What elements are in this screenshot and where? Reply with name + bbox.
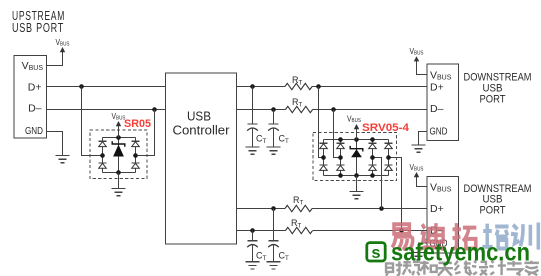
node SRV05-4 top rail center — [354, 137, 359, 142]
diode SRV05-4 col4 upper — [385, 142, 393, 144]
svg-text:D+: D+ — [430, 82, 444, 94]
wire W1 resistor RT1 to downstream port D+ — [312, 86, 427, 88]
capacitor CT1 — [248, 123, 258, 125]
wire D+ upstream from J1 to USB controller — [47, 86, 166, 88]
watermark CJK char yi — [392, 224, 413, 249]
node SR05 bottom rail center — [116, 170, 121, 175]
capacitor CT2 — [269, 123, 279, 125]
node SR05 right mid — [133, 153, 138, 158]
diode SRV05-4 col2 upper — [337, 142, 345, 144]
svg-text:PORT: PORT — [480, 205, 506, 217]
node W4 capacitor tap — [250, 228, 255, 233]
wire capacitor CT3 feed from W4 — [252, 231, 254, 241]
node W2 capacitor tap — [271, 107, 276, 112]
wire capacitor CT4 feed from W3 crossing W4 — [273, 209, 275, 241]
SR05 top rail wire — [103, 137, 136, 139]
wire W3 controller D+ out lower to resistor RT3 — [237, 208, 286, 210]
wire VBUS pin J3 to arrow — [417, 177, 428, 187]
TVS diode array SR05 dashed outline — [90, 130, 147, 179]
ground symbol SRV05-4 — [350, 191, 364, 193]
node SRV05-4 col2 mid — [338, 155, 343, 160]
wire SRV05-4 pin3 lead to W3 node — [373, 158, 382, 209]
svg-text:CT: CT — [256, 134, 267, 146]
SRV05-4 bottom rail wire — [324, 175, 389, 177]
node W4 from SRV05-4 — [399, 228, 404, 233]
svg-text:D–: D– — [28, 103, 42, 115]
ground symbol J2 — [412, 144, 426, 146]
SRV05-4 column 4 wire — [388, 140, 390, 176]
node W3 capacitor tap — [271, 206, 276, 211]
node W1 to SRV05-4 — [316, 84, 321, 89]
svg-text:D+: D+ — [430, 203, 444, 215]
ground symbol CT4 — [267, 261, 281, 263]
svg-text:VBUS: VBUS — [430, 182, 452, 194]
diode SR05 upper-left — [99, 140, 107, 142]
node SRV05-4 col4 mid — [386, 155, 391, 160]
wire GND pin J3 to ground — [419, 243, 428, 253]
svg-text:RT: RT — [293, 195, 304, 207]
power flag VBUS downstream upper — [414, 56, 419, 61]
watermark CJK char di — [419, 223, 445, 249]
ground symbol upstream port — [56, 155, 70, 157]
wire SRV05-4 pin1 lead from W1 node down — [319, 87, 324, 158]
SR05 bottom rail wire — [103, 172, 136, 174]
wire CT4 to ground — [273, 244, 275, 262]
diode SR05 upper-right — [132, 140, 140, 142]
watermark CJK char pei — [482, 224, 508, 249]
svg-text:CT: CT — [256, 251, 267, 263]
resistor RT3 — [285, 205, 312, 211]
svg-text:VBUS: VBUS — [22, 60, 44, 72]
capacitor CT4 — [269, 240, 279, 242]
zener TVS diode SR05 center — [112, 141, 125, 147]
node SRV05-4 bottom rail col2 — [338, 173, 343, 178]
svg-text:USB: USB — [187, 110, 211, 124]
wire W2 controller D- out to resistor RT2 — [237, 109, 286, 111]
svg-text:Controller: Controller — [173, 124, 230, 138]
svg-text:VBUS: VBUS — [347, 114, 361, 124]
wire VBUS pin J2 to arrow — [417, 61, 428, 75]
wire SR05 left lead from D+ node down into array — [82, 87, 103, 156]
wire CT2 to ground — [273, 128, 275, 147]
diode SRV05-4 col4 lower — [385, 164, 393, 166]
svg-text:GND: GND — [25, 126, 43, 137]
ground symbol J3 — [412, 252, 426, 254]
wire SR05 right lead from D- node down into array — [136, 110, 155, 156]
power flag VBUS downstream lower — [414, 172, 419, 177]
wire SRV05-4 ground stem — [356, 176, 358, 192]
svg-text:SRV05-4: SRV05-4 — [362, 122, 410, 134]
svg-text:VBUS: VBUS — [410, 163, 424, 173]
SRV05-4 top rail wire — [324, 139, 389, 141]
wire W4 controller D- out lower to resistor RT4 — [237, 230, 286, 232]
watermark CJK char xun — [511, 223, 538, 250]
SRV05-4 column 2 wire — [340, 140, 342, 176]
power flag VBUS of SR05 — [116, 121, 121, 126]
svg-text:USB PORT: USB PORT — [12, 21, 64, 35]
diode SRV05-4 col2 lower — [337, 164, 345, 166]
svg-text:SR05: SR05 — [124, 118, 151, 130]
node SRV05-4 top rail col2 — [338, 137, 343, 142]
ground symbol CT3 — [246, 261, 260, 263]
node SRV05-4 col1 mid — [321, 155, 326, 160]
diode SRV05-4 col1 upper — [320, 142, 328, 144]
watermark CJK char tuo — [453, 223, 477, 249]
diode SRV05-4 col3 lower — [369, 164, 377, 166]
diode SRV05-4 col3 upper — [369, 142, 377, 144]
wire SR05 ground stem — [118, 173, 120, 189]
diode SRV05-4 col1 lower — [320, 164, 328, 166]
svg-text:RT: RT — [292, 75, 303, 87]
SRV05-4 column 3 wire — [372, 140, 374, 176]
wire D- upstream from J1 to USB controller — [47, 109, 166, 111]
wire SR05 VBUS stem — [118, 126, 120, 138]
node W1 capacitor tap — [250, 84, 255, 89]
connector J3 downstream USB port lower box — [427, 176, 459, 253]
svg-text:safetyemc.cn: safetyemc.cn — [391, 238, 530, 266]
node D+ junction to SR05 — [79, 84, 84, 89]
svg-text:VBUS: VBUS — [56, 38, 70, 48]
resistor RT4 — [286, 227, 313, 233]
SR05 left column wire — [102, 138, 104, 173]
node SRV05-4 bottom rail center — [354, 173, 359, 178]
TVS diode array SRV05-4 dashed outline — [313, 132, 397, 180]
node SRV05-4 col3 mid — [370, 155, 375, 160]
svg-text:s: s — [371, 244, 380, 262]
SRV05-4 column 1 wire — [323, 140, 325, 176]
ground symbol SR05 — [112, 188, 126, 190]
svg-text:D–: D– — [430, 103, 444, 115]
wire W4 resistor RT4 to downstream port D- lower — [313, 230, 427, 232]
wire SRV05-4 pin2 lead from W2 node down — [334, 110, 341, 158]
wire SRV05-4 VBUS stem — [356, 129, 358, 140]
wire W3 resistor RT3 to downstream port D+ lower — [312, 208, 427, 210]
wire capacitor CT2 feed from W2 — [273, 110, 275, 125]
svg-text:D+: D+ — [28, 82, 42, 94]
wire CT3 to ground — [252, 244, 254, 262]
node D- junction to SR05 — [152, 107, 157, 112]
wire capacitor CT1 feed from W1 — [252, 87, 254, 125]
diode SR05 lower-right — [132, 162, 140, 164]
SRV05-4 center column wire — [356, 140, 358, 176]
wire CT1 to ground — [252, 128, 254, 147]
ground symbol CT1 — [246, 146, 260, 148]
wire W1 controller D+ out to resistor RT1 — [237, 86, 286, 88]
svg-text:RT: RT — [291, 218, 302, 230]
wire W2 resistor RT2 to downstream port D- — [313, 109, 428, 111]
node SR05 left mid — [100, 153, 105, 158]
capacitor CT3 — [248, 240, 258, 242]
resistor RT1 — [285, 83, 312, 89]
svg-text:PORT: PORT — [480, 94, 506, 106]
power flag VBUS upstream arrow — [60, 47, 65, 52]
node W2 to SRV05-4 — [331, 107, 336, 112]
connector J1 upstream USB port box — [14, 56, 47, 139]
node SR05 top rail center — [116, 135, 121, 140]
ground symbol CT2 — [267, 146, 281, 148]
connector J2 downstream USB port upper box — [427, 64, 459, 141]
wire GND pin J1 to ground — [47, 132, 63, 156]
svg-text:VBUS: VBUS — [410, 47, 424, 57]
svg-text:VBUS: VBUS — [430, 70, 452, 82]
watermark logo S box — [367, 243, 385, 261]
zener TVS diode SRV05-4 center — [350, 146, 363, 152]
watermark gray CJK tagline — [386, 261, 402, 275]
svg-text:CT: CT — [279, 251, 290, 263]
SR05 right column wire — [135, 138, 137, 173]
svg-text:CT: CT — [279, 134, 290, 146]
power flag VBUS of SRV05-4 — [354, 124, 359, 129]
node W3 from SRV05-4 — [379, 206, 384, 211]
wire SRV05-4 pin4 lead to W4 node crossing W3 — [389, 158, 402, 231]
node SRV05-4 bottom rail col3 — [370, 173, 375, 178]
svg-text:GND: GND — [430, 127, 448, 138]
diode SR05 lower-left — [99, 162, 107, 164]
wire VBUS pin J1 to VBUS arrow — [47, 52, 63, 66]
IC U1 USB Controller box — [166, 73, 237, 244]
resistor RT2 — [286, 106, 313, 112]
svg-text:RT: RT — [292, 97, 303, 109]
node SRV05-4 top rail col3 — [370, 137, 375, 142]
SR05 center column wire — [118, 138, 120, 173]
wire GND pin J2 to ground — [419, 132, 428, 146]
